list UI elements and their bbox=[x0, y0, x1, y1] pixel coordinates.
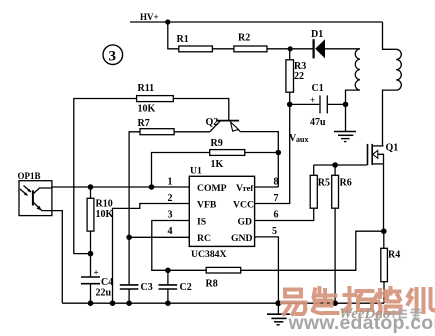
capacitor C3 bbox=[120, 237, 153, 303]
wire R9 right to Vref node bbox=[245, 152, 278, 154]
svg-text:COMP: COMP bbox=[197, 183, 227, 194]
svg-text:V: V bbox=[236, 183, 243, 194]
resistor R3 bbox=[286, 49, 306, 105]
resistor R10 bbox=[87, 187, 113, 254]
svg-text:GND: GND bbox=[231, 233, 253, 244]
wire R7 left down to RC pin 4 / C3 bbox=[129, 132, 140, 238]
svg-text:www.edatop.com: www.edatop.com bbox=[288, 312, 435, 334]
svg-text:1K: 1K bbox=[211, 159, 224, 170]
svg-text:R7: R7 bbox=[138, 118, 150, 129]
wire primary bottom to C1 node bbox=[346, 90, 360, 104]
wire COMP pin1 line (opto collector, R10 top, R9 leg) bbox=[52, 186, 189, 188]
wire gate line R5/R6 to Q1 gate bbox=[314, 164, 368, 166]
junction C3 rail bbox=[126, 300, 132, 306]
svg-text:OP1B: OP1B bbox=[18, 171, 41, 181]
svg-text:R8: R8 bbox=[206, 279, 218, 290]
wire R8 right to current sense node bbox=[241, 231, 384, 270]
svg-text:47u: 47u bbox=[310, 117, 326, 128]
resistor R7 bbox=[138, 118, 175, 135]
svg-text:C4: C4 bbox=[101, 277, 113, 288]
svg-text:D1: D1 bbox=[311, 29, 323, 40]
svg-text:7: 7 bbox=[274, 193, 279, 204]
wire ground rail bbox=[62, 302, 384, 304]
svg-text:R9: R9 bbox=[211, 138, 223, 149]
svg-text:+: + bbox=[94, 268, 99, 278]
junction C2 top bbox=[165, 268, 171, 274]
optocoupler OP1B bbox=[18, 171, 63, 303]
svg-text:10K: 10K bbox=[138, 104, 156, 115]
svg-text:UC384X: UC384X bbox=[191, 249, 227, 260]
IC U1 UC384X bbox=[189, 166, 254, 261]
svg-text:ref: ref bbox=[243, 183, 253, 193]
junction C4 rail bbox=[88, 300, 94, 306]
resistor R4 bbox=[381, 231, 400, 303]
wire R11 right to Q2 base bbox=[173, 99, 229, 121]
wire secondary bottom to Q1 drain bbox=[383, 90, 397, 146]
capacitor C1 47u bbox=[290, 83, 346, 128]
wire HV+ top rail bbox=[130, 21, 383, 23]
transformer primary winding bbox=[355, 49, 360, 90]
wire D1 to primary coil bbox=[325, 48, 360, 50]
junction ground tap rail bbox=[275, 300, 281, 306]
wire IS pin3 to R8/C2 bbox=[152, 221, 206, 271]
svg-text:5: 5 bbox=[272, 226, 277, 237]
wire RC pin4 line bbox=[129, 236, 189, 238]
svg-text:C1: C1 bbox=[312, 83, 324, 94]
node Vaux label bbox=[289, 133, 308, 144]
svg-text:Q1: Q1 bbox=[386, 143, 399, 154]
svg-text:aux: aux bbox=[296, 135, 308, 144]
wire Vref pin8 to node bbox=[255, 186, 279, 188]
svg-text:2: 2 bbox=[168, 193, 173, 204]
wire R1 to R2 bbox=[212, 48, 234, 50]
wire R11 left leg down to C4 node bbox=[74, 99, 137, 254]
wire R9 left leg down to COMP pin1 bbox=[152, 153, 210, 188]
ground (aux winding return) bbox=[334, 104, 356, 141]
wire Q1 drain up bbox=[383, 145, 384, 147]
junction R11 leg / R10 bottom / C4 bbox=[88, 251, 94, 257]
wire Q1 source down to R4 bbox=[383, 164, 385, 231]
junction R9 leg / pin1 bbox=[149, 184, 155, 190]
resistor R2 bbox=[234, 33, 267, 52]
capacitor C2 bbox=[159, 270, 192, 303]
wire Q2 emitter to Vref node bbox=[240, 132, 278, 187]
junction R9 / Q2 / Vref node bbox=[276, 150, 282, 156]
svg-text:C2: C2 bbox=[180, 282, 192, 293]
watermark 易迪拓培训 (pink CJK) bbox=[282, 288, 435, 314]
resistor R1 bbox=[177, 34, 213, 52]
resistor R11 bbox=[137, 83, 174, 115]
transformer secondary winding bbox=[383, 22, 397, 49]
junction HV+ tap bbox=[165, 19, 170, 24]
svg-text:22u: 22u bbox=[96, 288, 112, 299]
diode D1 (cathode bar left, pointing left) bbox=[311, 29, 325, 58]
watermark 雄库 (gray CJK) bbox=[391, 309, 422, 319]
svg-text:VFB: VFB bbox=[197, 200, 217, 211]
svg-text:IS: IS bbox=[197, 216, 206, 227]
svg-text:10K: 10K bbox=[96, 209, 114, 220]
junction C1 right / coil return node bbox=[343, 102, 349, 108]
svg-text:3: 3 bbox=[168, 210, 173, 221]
svg-text:R4: R4 bbox=[388, 250, 400, 261]
junction R10 top bbox=[88, 184, 94, 190]
wire Vaux down to VCC pin 7 bbox=[255, 104, 290, 203]
wire GND pin5 to ground rail bbox=[255, 237, 279, 303]
svg-text:R11: R11 bbox=[138, 83, 155, 94]
svg-text:8: 8 bbox=[274, 177, 279, 188]
svg-text:U1: U1 bbox=[190, 166, 202, 177]
wire R7 right to Q2 collector bbox=[174, 131, 210, 133]
resistor R6 bbox=[332, 165, 352, 303]
svg-text:22: 22 bbox=[294, 71, 304, 82]
capacitor C4 22u bbox=[81, 254, 113, 304]
node HV+ label bbox=[140, 12, 159, 22]
transistor Q2 (PNP) bbox=[206, 117, 241, 132]
svg-text:RC: RC bbox=[197, 233, 211, 244]
junction Q1 source / R4 / sense bbox=[381, 228, 387, 234]
wire VFB pin2 to ground leg bbox=[113, 204, 190, 304]
svg-text:C3: C3 bbox=[141, 282, 153, 293]
svg-text:HV+: HV+ bbox=[140, 12, 159, 22]
svg-text:R6: R6 bbox=[340, 178, 352, 189]
wire GD pin6 to R5 bottom bbox=[255, 208, 314, 220]
svg-text:3: 3 bbox=[109, 49, 117, 65]
svg-text:+: + bbox=[310, 95, 315, 105]
svg-text:4: 4 bbox=[168, 226, 173, 237]
junction R6 rail bbox=[332, 300, 338, 306]
svg-text:GD: GD bbox=[238, 216, 253, 227]
junction C2 rail bbox=[165, 300, 171, 306]
junction VFB-leg rail bbox=[110, 300, 116, 306]
svg-text:R2: R2 bbox=[238, 33, 250, 44]
svg-text:R10: R10 bbox=[96, 199, 113, 210]
resistor R5 bbox=[310, 165, 330, 208]
wire HV+ tap down to R1 bbox=[168, 22, 179, 49]
svg-text:R5: R5 bbox=[318, 178, 330, 189]
junction pin4 / C3 / R7 leg bbox=[126, 235, 132, 241]
svg-text:VCC: VCC bbox=[233, 200, 254, 211]
junction R3 top tap bbox=[288, 46, 293, 51]
svg-text:R1: R1 bbox=[177, 34, 189, 45]
ground (main) bbox=[267, 303, 290, 325]
transistor Q1 (N-MOSFET) bbox=[368, 143, 399, 166]
junction R6 top / gate line bbox=[332, 162, 338, 168]
resistor R8 bbox=[206, 267, 241, 289]
svg-text:6: 6 bbox=[274, 210, 279, 221]
junction C1 left node bbox=[287, 102, 293, 108]
svg-text:Q2: Q2 bbox=[206, 117, 219, 128]
svg-text:1: 1 bbox=[168, 177, 173, 188]
resistor R9 bbox=[210, 138, 245, 170]
circled 3 figure number bbox=[103, 45, 123, 65]
wire R2 to D1 bbox=[267, 48, 313, 50]
